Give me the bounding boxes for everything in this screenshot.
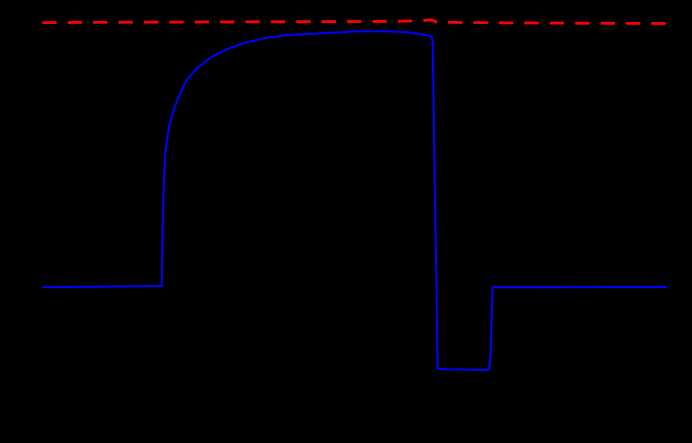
red dashed reference line bbox=[42, 20, 666, 24]
blue response curve bbox=[42, 31, 667, 370]
